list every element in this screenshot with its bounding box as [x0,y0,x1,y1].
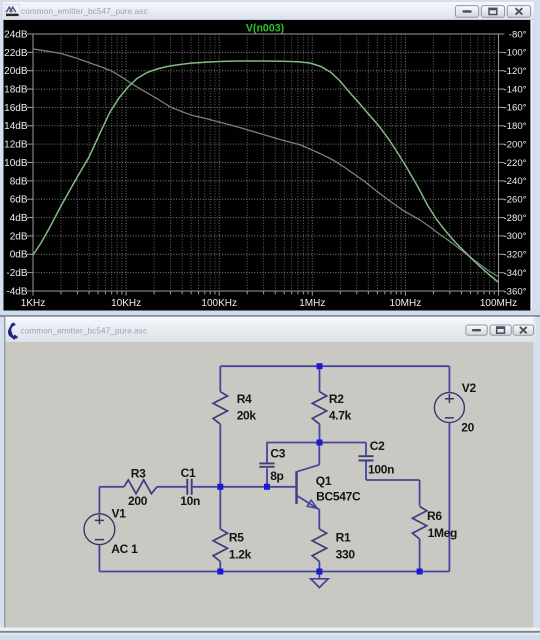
svg-text:R2: R2 [329,392,344,406]
svg-text:-100°: -100° [503,48,526,59]
svg-text:V2: V2 [462,381,477,395]
svg-text:Q1: Q1 [316,474,332,488]
svg-text:-140°: -140° [503,84,526,95]
svg-text:common_emitter_bc547_pure.asc: common_emitter_bc547_pure.asc [21,326,148,335]
svg-text:1.2k: 1.2k [229,548,252,562]
svg-text:100MHz: 100MHz [480,298,517,309]
svg-text:common_emitter_bc547_pure.asc: common_emitter_bc547_pure.asc [21,7,148,16]
svg-text:-340°: -340° [503,268,526,279]
svg-text:-120°: -120° [503,66,526,77]
svg-text:100n: 100n [368,463,394,477]
svg-text:-4dB: -4dB [6,286,27,297]
svg-text:-160°: -160° [503,103,526,114]
svg-text:R1: R1 [336,530,351,544]
svg-text:C3: C3 [270,446,285,460]
svg-text:4.7k: 4.7k [329,409,352,423]
svg-text:2dB: 2dB [10,231,28,242]
svg-text:R6: R6 [427,509,442,523]
svg-text:1Meg: 1Meg [428,526,457,540]
svg-text:C2: C2 [370,439,385,453]
svg-text:R4: R4 [237,392,252,406]
svg-text:BC547C: BC547C [316,490,361,504]
svg-text:14dB: 14dB [4,121,28,132]
svg-text:10MHz: 10MHz [390,298,422,309]
svg-text:20: 20 [461,421,474,435]
svg-text:AC 1: AC 1 [111,542,138,556]
svg-text:10dB: 10dB [4,158,28,169]
svg-text:20k: 20k [237,409,257,423]
svg-text:18dB: 18dB [4,84,28,95]
svg-text:-200°: -200° [503,139,526,150]
svg-text:C1: C1 [181,466,196,480]
svg-text:-280°: -280° [503,213,526,224]
svg-text:10KHz: 10KHz [111,298,141,309]
svg-text:22dB: 22dB [4,48,28,59]
svg-text:8dB: 8dB [10,176,28,187]
svg-text:-300°: -300° [503,231,526,242]
svg-text:-360°: -360° [503,286,526,297]
svg-text:20dB: 20dB [4,66,28,77]
svg-text:200: 200 [128,494,148,508]
svg-text:-240°: -240° [503,176,526,187]
svg-text:1KHz: 1KHz [21,298,45,309]
svg-text:-320°: -320° [503,250,526,261]
svg-text:1MHz: 1MHz [299,298,325,309]
svg-text:10n: 10n [180,494,200,508]
svg-text:330: 330 [336,548,356,562]
svg-text:-260°: -260° [503,195,526,206]
svg-text:R5: R5 [229,530,244,544]
svg-text:V(n003): V(n003) [246,22,284,34]
svg-text:V1: V1 [112,507,127,521]
svg-text:24dB: 24dB [4,29,28,40]
svg-text:-80°: -80° [509,29,527,40]
svg-text:12dB: 12dB [4,140,28,151]
svg-text:-180°: -180° [503,121,526,132]
svg-text:8p: 8p [270,469,283,483]
svg-text:16dB: 16dB [4,103,28,114]
svg-text:6dB: 6dB [10,195,28,206]
svg-text:R3: R3 [131,466,146,480]
svg-text:0dB: 0dB [10,250,28,261]
svg-text:4dB: 4dB [10,213,28,224]
svg-text:100KHz: 100KHz [201,298,237,309]
svg-text:-2dB: -2dB [6,268,27,279]
svg-text:-220°: -220° [503,158,526,169]
